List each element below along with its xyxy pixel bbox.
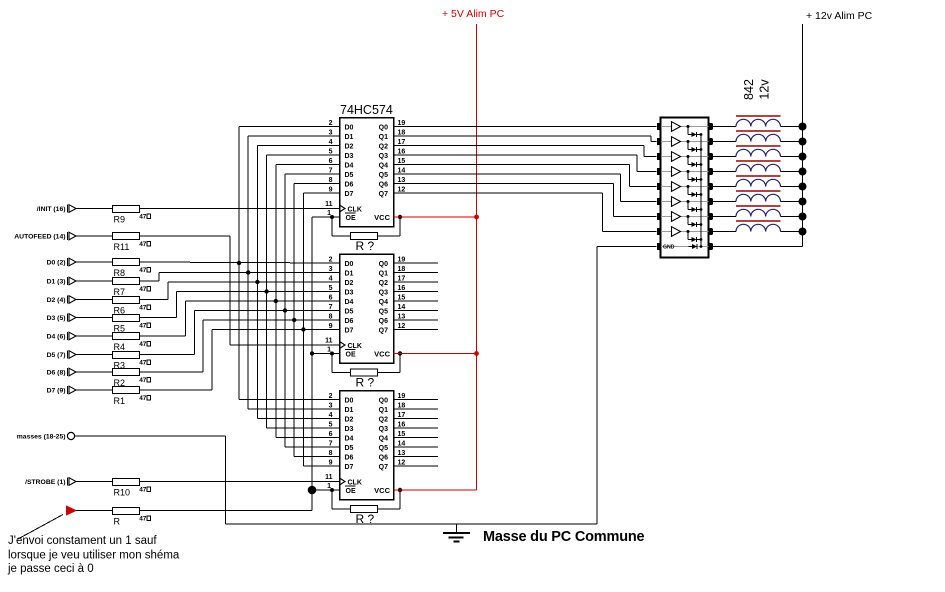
U4 left pin nub 4 xyxy=(657,168,661,175)
U4 right pin nub 1 xyxy=(708,123,712,130)
svg-text:12v: 12v xyxy=(757,79,771,100)
wire R10 to U3 CLK xyxy=(140,481,340,483)
U1 OE pulldown left lead xyxy=(331,217,333,236)
svg-text:je passe ceci à 0: je passe ceci à 0 xyxy=(7,563,94,575)
wire +12v vertical rail xyxy=(802,24,804,247)
svg-text:5: 5 xyxy=(329,422,333,429)
resistor R1 xyxy=(113,387,140,394)
junction +12v rail 8 xyxy=(799,228,807,236)
svg-text:OE: OE xyxy=(346,488,356,495)
svg-text:2: 2 xyxy=(329,120,333,127)
U4 buffer 1 xyxy=(672,122,681,132)
svg-text:D2 (4): D2 (4) xyxy=(47,297,66,304)
svg-text:Q5: Q5 xyxy=(379,445,388,452)
U4 diode common vertical xyxy=(700,135,702,247)
svg-text:D7: D7 xyxy=(345,191,354,198)
resistor R? U1 xyxy=(351,233,378,240)
svg-text:4: 4 xyxy=(329,276,333,283)
junction D7 bus xyxy=(301,327,305,331)
wire red connector to R xyxy=(76,510,112,512)
U4 channel 1 internal wire xyxy=(661,126,708,128)
wire driver output 7 to coil xyxy=(713,216,736,218)
wire U1 Q5 to driver input 6 xyxy=(394,173,621,175)
coil L6 red bar xyxy=(736,190,781,192)
wire driver output 4 to coil xyxy=(713,171,736,173)
wire D7 to U2 D7 xyxy=(140,389,212,391)
wire bus D3 to U1 xyxy=(267,154,340,156)
junction +12v rail 5 xyxy=(799,183,807,191)
resistor R6 xyxy=(113,297,140,304)
U3 OE pulldown left lead xyxy=(331,490,333,509)
svg-text:OE: OE xyxy=(346,352,356,359)
svg-text:VCC: VCC xyxy=(374,486,390,495)
U4 right pin nub 9 xyxy=(708,243,712,250)
wire bus D2 to U3 xyxy=(257,418,339,420)
U4 buffer 4 xyxy=(672,167,681,177)
svg-text:OE: OE xyxy=(346,215,356,222)
svg-text:D1: D1 xyxy=(345,134,354,141)
wire U1 Q7 to driver input 8 xyxy=(394,192,603,194)
svg-text:3: 3 xyxy=(329,266,333,273)
svg-text:R9: R9 xyxy=(114,215,126,225)
wire bus D1 vertical xyxy=(247,136,249,409)
wire bus D7 to U1 xyxy=(303,192,339,194)
svg-text:Q0: Q0 xyxy=(379,397,388,404)
svg-text:47: 47 xyxy=(139,267,147,274)
svg-text:D5: D5 xyxy=(345,308,354,315)
svg-text:D2: D2 xyxy=(345,143,354,150)
wire D6 to R2 xyxy=(76,371,112,373)
svg-text:47: 47 xyxy=(139,377,147,384)
svg-text:18: 18 xyxy=(398,130,406,137)
svg-text:18: 18 xyxy=(398,266,406,273)
coil L7 xyxy=(736,209,781,216)
svg-text:Q5: Q5 xyxy=(379,308,388,315)
U4 left pin nub 5 xyxy=(657,183,661,190)
junction +12v rail 4 xyxy=(799,168,807,176)
U4 channel 5 internal wire xyxy=(661,186,708,188)
U4 right pin nub 4 xyxy=(708,168,712,175)
wire U2 VCC to +5V rail xyxy=(394,353,477,355)
wire U1 Q0 to driver input 1 xyxy=(394,126,657,128)
resistor R5 xyxy=(113,315,140,322)
svg-text:8: 8 xyxy=(329,177,333,184)
U4 diode 6 xyxy=(687,200,690,203)
junction +12v rail 7 xyxy=(799,213,807,221)
wire bus D6 vertical xyxy=(293,184,295,457)
wire coil 2 to +12v rail xyxy=(781,141,803,143)
svg-text:AUTOFEED (14): AUTOFEED (14) xyxy=(14,234,65,241)
U4 left pin nub 6 xyxy=(657,198,661,205)
resistor R3 xyxy=(113,352,140,359)
U2 OE pulldown left lead xyxy=(331,354,333,373)
U4 right pin nub 3 xyxy=(708,153,712,160)
svg-text:Q2: Q2 xyxy=(379,416,388,423)
svg-text:47: 47 xyxy=(139,516,147,523)
junction +5V rail U1 xyxy=(474,215,479,220)
wire U1 Q6 to driver input 7 xyxy=(394,183,614,185)
svg-text:D3: D3 xyxy=(345,426,354,433)
U3 OE pulldown right lead xyxy=(378,508,401,510)
svg-text:Q0: Q0 xyxy=(379,261,388,268)
resistor R? U3 xyxy=(351,506,378,513)
svg-text:3: 3 xyxy=(329,130,333,137)
svg-text:Q2: Q2 xyxy=(379,280,388,287)
resistor R? U2 xyxy=(351,369,378,376)
wire bus D5 to U3 xyxy=(285,446,340,448)
svg-text:5: 5 xyxy=(329,149,333,156)
wire U1 VCC to +5V rail xyxy=(394,216,477,218)
IC U4 driver box xyxy=(661,118,709,258)
svg-text:17: 17 xyxy=(398,139,406,146)
coil L2 red bar xyxy=(736,130,781,132)
wire driver output 2 to coil xyxy=(713,141,736,143)
svg-text:9: 9 xyxy=(329,460,333,467)
svg-text:15: 15 xyxy=(398,158,406,165)
U4 buffer 3 xyxy=(672,152,681,162)
U4 right pin nub 5 xyxy=(708,183,712,190)
coil L1 xyxy=(736,119,781,126)
svg-text:8: 8 xyxy=(329,450,333,457)
svg-text:D7 (9): D7 (9) xyxy=(47,388,66,395)
svg-text:lorsque je veu utiliser mon sh: lorsque je veu utiliser mon shéma xyxy=(8,550,180,562)
wire coil 8 to +12v rail xyxy=(781,231,803,233)
U4 common diode xyxy=(689,246,693,248)
U4 diode 4 xyxy=(687,170,690,173)
resistor R4 xyxy=(113,333,140,340)
U4 left pin nub 7 xyxy=(657,213,661,220)
svg-text:R8: R8 xyxy=(114,268,126,278)
wire bus D6 to U3 xyxy=(294,456,339,458)
svg-text:47: 47 xyxy=(139,323,147,330)
svg-text:5: 5 xyxy=(329,285,333,292)
wire bus D1 to U3 xyxy=(248,408,339,410)
U4 diode 7 xyxy=(687,215,690,218)
U4 left pin nub 9 xyxy=(657,243,661,250)
IC U1 74HC574 box xyxy=(340,118,394,227)
svg-text:17: 17 xyxy=(398,276,406,283)
svg-text:GND: GND xyxy=(663,245,675,251)
wire +5V vertical rail xyxy=(476,24,478,490)
svg-text:47: 47 xyxy=(139,395,147,402)
svg-text:6: 6 xyxy=(329,431,333,438)
wire D1 to R7 xyxy=(76,280,112,282)
wire bus D3 vertical xyxy=(266,155,268,428)
svg-text:Q0: Q0 xyxy=(379,124,388,131)
junction +12v rail 3 xyxy=(799,153,807,161)
IC U3 74HC574 box xyxy=(340,391,394,500)
wire driver output 8 to coil xyxy=(713,231,736,233)
svg-text:D0: D0 xyxy=(345,124,354,131)
svg-text:6: 6 xyxy=(329,158,333,165)
svg-text:14: 14 xyxy=(398,304,406,311)
svg-text:12: 12 xyxy=(398,187,406,194)
U4 right pin nub 7 xyxy=(708,213,712,220)
svg-text:Q6: Q6 xyxy=(379,318,388,325)
svg-text:Q1: Q1 xyxy=(379,407,388,414)
wire driver output 3 to coil xyxy=(713,156,736,158)
wire R9 to U1 CLK xyxy=(140,208,340,210)
svg-text:13: 13 xyxy=(398,314,406,321)
svg-text:Q7: Q7 xyxy=(379,191,388,198)
svg-text:47: 47 xyxy=(139,341,147,348)
svg-text:15: 15 xyxy=(398,431,406,438)
svg-text:R1: R1 xyxy=(114,396,126,406)
resistor R9 xyxy=(113,206,140,213)
svg-text:7: 7 xyxy=(329,168,333,175)
U1 OE wire xyxy=(312,216,340,218)
svg-text:47: 47 xyxy=(139,487,147,494)
svg-text:13: 13 xyxy=(398,450,406,457)
wire D1 to U2 D1 xyxy=(140,280,159,282)
coil L4 red bar xyxy=(736,160,781,162)
svg-text:D3 (5): D3 (5) xyxy=(47,315,66,322)
junction OE bus U2 xyxy=(310,351,314,355)
coil L2 xyxy=(736,134,781,141)
svg-text:masses (18-25): masses (18-25) xyxy=(17,434,66,441)
wire bus D3 to U3 xyxy=(267,427,340,429)
svg-text:18: 18 xyxy=(398,403,406,410)
svg-text:14: 14 xyxy=(398,441,406,448)
U4 buffer 7 xyxy=(672,212,681,222)
resistor R xyxy=(113,508,140,515)
ground symbol xyxy=(456,524,458,533)
svg-text:13: 13 xyxy=(398,177,406,184)
junction +12v rail 1 xyxy=(799,123,807,131)
U4 channel 7 internal wire xyxy=(661,216,708,218)
svg-text:3: 3 xyxy=(329,403,333,410)
wire coil 4 to +12v rail xyxy=(781,171,803,173)
U4 right pin nub 8 xyxy=(708,228,712,235)
svg-text:D3: D3 xyxy=(345,153,354,160)
svg-text:12: 12 xyxy=(398,460,406,467)
wire bus D0 vertical xyxy=(238,127,240,400)
U4 buffer 6 xyxy=(672,197,681,207)
U4 GND row internal wire xyxy=(661,246,708,248)
IC U2 74HC574 box xyxy=(340,254,394,363)
wire driver output 1 to coil xyxy=(713,126,736,128)
wire bus D2 vertical xyxy=(256,146,258,419)
U4 right pin nub 6 xyxy=(708,198,712,205)
svg-text:47: 47 xyxy=(139,360,147,367)
connector force-strobe (red) xyxy=(67,506,77,515)
junction +5V rail U2 xyxy=(474,351,479,356)
svg-text:D4: D4 xyxy=(345,435,354,442)
wire coil 3 to +12v rail xyxy=(781,156,803,158)
U4 left pin nub 1 xyxy=(657,123,661,130)
svg-text:D7: D7 xyxy=(345,327,354,334)
svg-text:4: 4 xyxy=(329,412,333,419)
junction D4 bus xyxy=(274,299,278,303)
U4 diode 8 xyxy=(687,230,690,233)
coil L5 xyxy=(736,179,781,186)
wire bus D2 to U1 xyxy=(257,145,339,147)
wire D0 to R8 xyxy=(76,261,112,263)
svg-text:/INIT (16): /INIT (16) xyxy=(37,206,66,213)
wire D2 to U2 D2 xyxy=(140,299,168,301)
wire driver output 6 to coil xyxy=(713,201,736,203)
svg-text:Q7: Q7 xyxy=(379,464,388,471)
svg-text:2: 2 xyxy=(329,257,333,264)
wire bus D6 to U1 xyxy=(294,183,339,185)
junction +12v rail 6 xyxy=(799,198,807,206)
svg-text:+ 12v Alim PC: + 12v Alim PC xyxy=(806,10,873,22)
U4 left pin nub 3 xyxy=(657,153,661,160)
wire U1 Q3 to driver input 4 xyxy=(394,154,637,156)
svg-text:9: 9 xyxy=(329,323,333,330)
junction D1 bus xyxy=(246,270,250,274)
svg-text:R10: R10 xyxy=(114,488,131,498)
wire bus D0 to U1 xyxy=(239,126,340,128)
svg-text:Q6: Q6 xyxy=(379,454,388,461)
U4 diode 2 xyxy=(687,140,690,143)
svg-text:Q2: Q2 xyxy=(379,143,388,150)
U4 channel 8 internal wire xyxy=(661,231,708,233)
U4 right pin nub 2 xyxy=(708,138,712,145)
U4 left pin nub 8 xyxy=(657,228,661,235)
wire bus D5 vertical xyxy=(284,174,286,447)
svg-text:7: 7 xyxy=(329,304,333,311)
svg-text:VCC: VCC xyxy=(374,213,390,222)
svg-text:D4: D4 xyxy=(345,299,354,306)
wire driver output 5 to coil xyxy=(713,186,736,188)
wire U4 COM to +12v rail xyxy=(713,246,803,248)
svg-text:VCC: VCC xyxy=(374,350,390,359)
svg-text:6: 6 xyxy=(329,295,333,302)
svg-text:D5: D5 xyxy=(345,172,354,179)
svg-text:D4: D4 xyxy=(345,162,354,169)
svg-text:D5: D5 xyxy=(345,445,354,452)
U2 OE pulldown right lead xyxy=(378,372,401,374)
U4 channel 3 internal wire xyxy=(661,156,708,158)
wire U1 Q2 to driver input 3 xyxy=(394,145,645,147)
svg-text:11: 11 xyxy=(325,338,333,345)
U4 channel 6 internal wire xyxy=(661,201,708,203)
svg-text:11: 11 xyxy=(325,201,333,208)
U3 OE wire xyxy=(312,489,340,491)
svg-text:Q7: Q7 xyxy=(379,327,388,334)
svg-text:Masse du PC Commune: Masse du PC Commune xyxy=(483,529,645,545)
wire U1 Q1 to driver input 2 xyxy=(394,135,651,137)
wire bus D7 vertical xyxy=(302,193,304,466)
svg-text:Q6: Q6 xyxy=(379,181,388,188)
wire D5 to R3 xyxy=(76,354,112,356)
wire bus D4 to U3 xyxy=(276,437,340,439)
coil L5 red bar xyxy=(736,175,781,177)
junction D2 bus xyxy=(255,280,259,284)
svg-text:D1: D1 xyxy=(345,407,354,414)
wire coil 5 to +12v rail xyxy=(781,186,803,188)
wire bus D1 to U1 xyxy=(248,135,339,137)
svg-text:D4 (6): D4 (6) xyxy=(47,334,66,341)
resistor R10 xyxy=(113,479,140,486)
coil L8 xyxy=(736,224,781,231)
coil L7 red bar xyxy=(736,205,781,207)
svg-text:16: 16 xyxy=(398,149,406,156)
wire /INIT to R9 xyxy=(76,208,112,210)
junction D0 bus xyxy=(237,261,241,265)
U4 channel 2 internal wire xyxy=(661,141,708,143)
svg-text:D2: D2 xyxy=(345,416,354,423)
svg-text:J'envoi constament un 1 sauf: J'envoi constament un 1 sauf xyxy=(8,535,157,547)
wire D3 to R5 xyxy=(76,317,112,319)
U4 buffer 8 xyxy=(672,227,681,237)
coil L8 red bar xyxy=(736,220,781,222)
U1 OE pulldown right lead xyxy=(378,235,401,237)
svg-text:17: 17 xyxy=(398,412,406,419)
svg-text:D5 (7): D5 (7) xyxy=(47,352,66,359)
wire OE bus vertical xyxy=(311,217,313,490)
svg-text:47: 47 xyxy=(139,286,147,293)
coil L3 red bar xyxy=(736,145,781,147)
resistor R2 xyxy=(113,369,140,376)
svg-text:Q4: Q4 xyxy=(379,299,388,306)
svg-text:19: 19 xyxy=(398,120,406,127)
svg-text:Q5: Q5 xyxy=(379,172,388,179)
wire U1 Q4 to driver input 5 xyxy=(394,164,630,166)
svg-text:7: 7 xyxy=(329,441,333,448)
wire AUTOFEED to R11 xyxy=(76,235,112,237)
junction D3 bus xyxy=(264,289,268,293)
svg-text:R: R xyxy=(114,517,121,527)
svg-text:D1 (3): D1 (3) xyxy=(47,279,66,286)
svg-text:12: 12 xyxy=(398,323,406,330)
junction +12v rail 2 xyxy=(799,138,807,146)
svg-text:Q3: Q3 xyxy=(379,153,388,160)
svg-text:Q4: Q4 xyxy=(379,435,388,442)
svg-text:R4: R4 xyxy=(114,342,126,352)
svg-text:CLK: CLK xyxy=(348,206,362,213)
wire R to OE bus xyxy=(140,510,312,512)
svg-text:/STROBE (1): /STROBE (1) xyxy=(25,479,65,486)
svg-text:Q3: Q3 xyxy=(379,426,388,433)
wire D3 to U2 D3 xyxy=(140,317,177,319)
wire D7 to R1 xyxy=(76,389,112,391)
U4 buffer 2 xyxy=(672,137,681,147)
svg-text:Q1: Q1 xyxy=(379,134,388,141)
svg-text:D0: D0 xyxy=(345,397,354,404)
wire bus D5 to U1 xyxy=(285,173,340,175)
svg-text:Q4: Q4 xyxy=(379,162,388,169)
wire bus D7 to U3 xyxy=(303,465,339,467)
svg-text:47: 47 xyxy=(139,241,147,248)
wire coil 6 to +12v rail xyxy=(781,201,803,203)
U4 channel 4 internal wire xyxy=(661,171,708,173)
svg-text:D6 (8): D6 (8) xyxy=(47,370,66,377)
wire coil 1 to +12v rail xyxy=(781,126,803,128)
svg-text:19: 19 xyxy=(398,393,406,400)
svg-text:D0: D0 xyxy=(345,261,354,268)
wire D0 to U2 D0 xyxy=(140,262,340,263)
wire bus D4 to U1 xyxy=(276,164,340,166)
U4 diode 3 xyxy=(687,155,690,158)
svg-text:CLK: CLK xyxy=(348,479,362,486)
svg-text:4: 4 xyxy=(329,139,333,146)
svg-text:D2: D2 xyxy=(345,280,354,287)
junction D5 bus xyxy=(283,308,287,312)
svg-text:R7: R7 xyxy=(114,287,126,297)
wire coil 7 to +12v rail xyxy=(781,216,803,218)
svg-text:19: 19 xyxy=(398,257,406,264)
svg-text:74HC574: 74HC574 xyxy=(340,103,393,117)
svg-text:D1: D1 xyxy=(345,270,354,277)
junction OE bus U3 xyxy=(308,486,317,495)
wire bus D0 to U3 xyxy=(239,399,340,401)
svg-text:R ?: R ? xyxy=(356,376,375,390)
svg-text:8: 8 xyxy=(329,314,333,321)
svg-text:14: 14 xyxy=(398,168,406,175)
wire R11 to U2 CLK xyxy=(140,235,230,237)
